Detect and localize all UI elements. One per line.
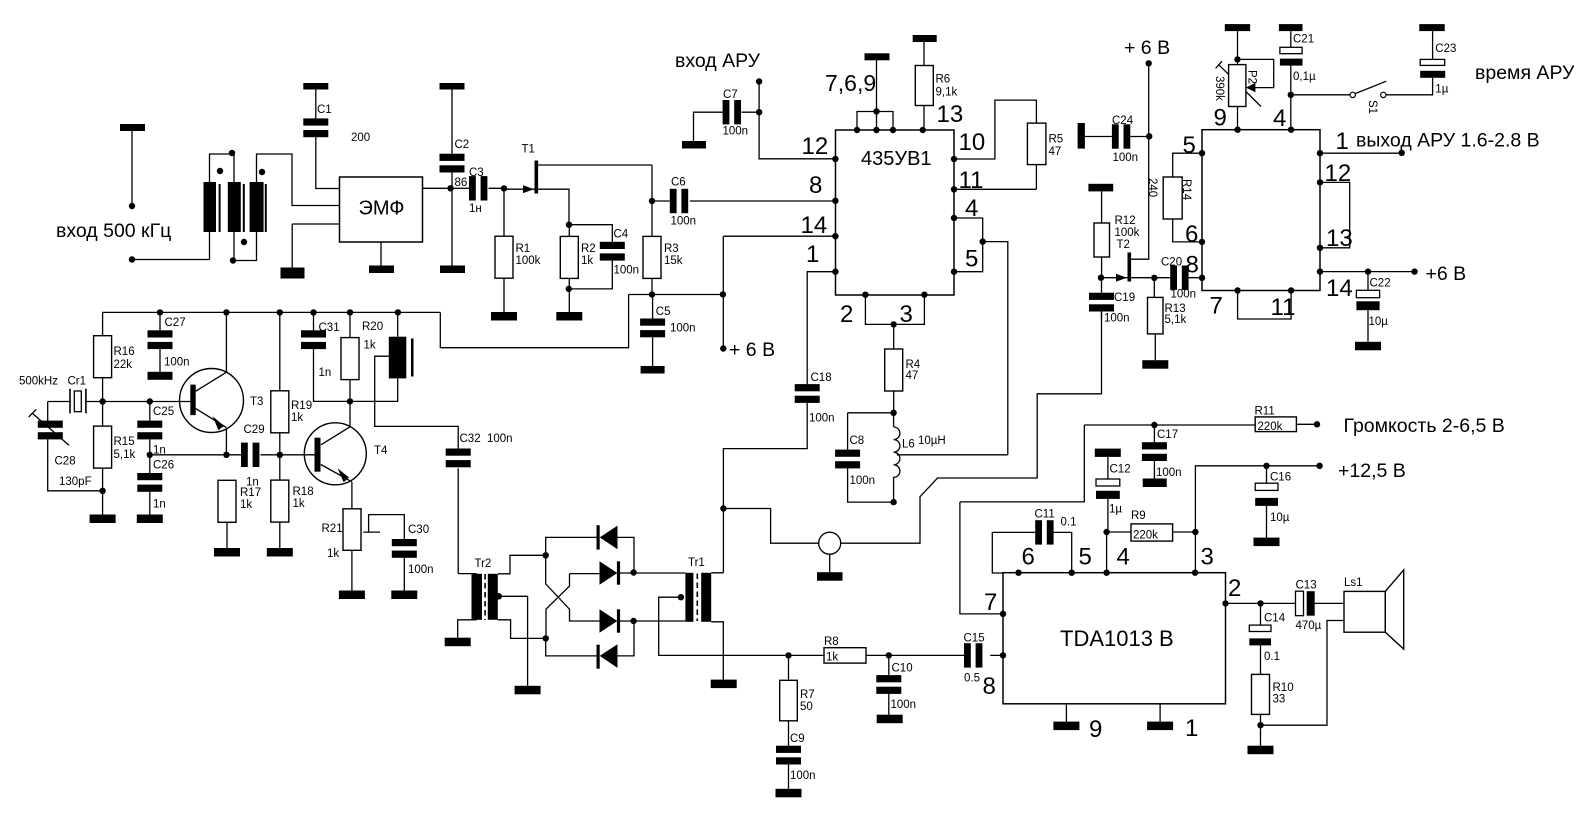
svg-text:R12: R12 <box>1115 215 1136 227</box>
svg-text:R8: R8 <box>824 636 839 648</box>
svg-text:3: 3 <box>900 301 913 328</box>
svg-text:130pF: 130pF <box>59 476 92 488</box>
svg-text:435УВ1: 435УВ1 <box>861 148 932 170</box>
svg-text:вход АРУ: вход АРУ <box>675 50 761 72</box>
svg-text:6: 6 <box>1185 221 1198 248</box>
svg-text:7,6,9: 7,6,9 <box>825 70 876 96</box>
svg-text:1k: 1k <box>293 498 305 510</box>
svg-text:C21: C21 <box>1293 34 1314 46</box>
svg-text:+ 6 В: + 6 В <box>1124 37 1170 59</box>
svg-text:C32: C32 <box>460 433 481 445</box>
svg-text:15k: 15k <box>664 255 683 267</box>
svg-text:47: 47 <box>906 370 919 382</box>
svg-text:0.1: 0.1 <box>1061 517 1077 529</box>
svg-text:10µH: 10µH <box>918 435 946 447</box>
svg-text:100n: 100n <box>1156 467 1182 479</box>
svg-text:200: 200 <box>351 132 370 144</box>
svg-text:+ 6 В: + 6 В <box>729 339 775 361</box>
svg-text:Tr1: Tr1 <box>688 557 705 569</box>
svg-text:C30: C30 <box>408 524 429 536</box>
svg-text:5: 5 <box>1183 132 1196 159</box>
svg-text:1н: 1н <box>469 203 482 215</box>
svg-text:C20: C20 <box>1161 257 1182 269</box>
svg-text:C2: C2 <box>455 139 470 151</box>
svg-text:P2: P2 <box>1246 70 1258 84</box>
svg-text:T2: T2 <box>1117 239 1130 251</box>
svg-text:240: 240 <box>1146 178 1158 197</box>
svg-text:1k: 1k <box>364 340 376 352</box>
svg-text:3: 3 <box>1201 544 1214 571</box>
svg-text:вход 500 кГц: вход 500 кГц <box>56 220 171 242</box>
svg-text:1n: 1n <box>153 445 166 457</box>
svg-text:100n: 100n <box>1171 289 1197 301</box>
svg-text:C10: C10 <box>892 663 913 675</box>
svg-text:1k: 1k <box>240 499 252 511</box>
svg-text:12: 12 <box>802 133 829 160</box>
svg-text:C19: C19 <box>1114 292 1135 304</box>
svg-text:11: 11 <box>1271 294 1296 321</box>
svg-text:9,1k: 9,1k <box>936 87 958 99</box>
svg-text:8: 8 <box>1186 252 1199 279</box>
svg-text:R20: R20 <box>362 321 383 333</box>
svg-text:5: 5 <box>1079 544 1092 571</box>
svg-text:50: 50 <box>800 701 813 713</box>
svg-text:500kHz: 500kHz <box>19 376 58 388</box>
svg-text:R21: R21 <box>322 523 343 535</box>
svg-text:R16: R16 <box>114 346 135 358</box>
svg-text:R18: R18 <box>293 486 314 498</box>
svg-text:10µ: 10µ <box>1270 512 1290 524</box>
svg-text:100n: 100n <box>891 699 917 711</box>
svg-text:14: 14 <box>1326 275 1353 302</box>
svg-text:C24: C24 <box>1112 115 1134 127</box>
svg-text:C14: C14 <box>1264 613 1286 625</box>
svg-text:1: 1 <box>1336 128 1349 155</box>
svg-text:C22: C22 <box>1370 278 1391 290</box>
svg-text:100n: 100n <box>790 770 816 782</box>
svg-text:C25: C25 <box>153 406 174 418</box>
svg-text:1k: 1k <box>327 548 339 560</box>
svg-text:2: 2 <box>1228 575 1241 602</box>
svg-text:C9: C9 <box>790 733 805 745</box>
svg-text:R9: R9 <box>1131 510 1146 522</box>
svg-text:C12: C12 <box>1110 464 1131 476</box>
svg-text:4: 4 <box>965 195 978 222</box>
svg-text:C6: C6 <box>671 177 686 189</box>
svg-text:0,1µ: 0,1µ <box>1293 71 1316 83</box>
svg-text:100n: 100n <box>671 216 697 228</box>
svg-text:C16: C16 <box>1270 472 1291 484</box>
svg-text:220k: 220k <box>1258 421 1283 433</box>
svg-text:R3: R3 <box>664 243 679 255</box>
svg-text:13: 13 <box>1326 225 1353 252</box>
svg-text:4: 4 <box>1117 544 1130 571</box>
svg-text:100n: 100n <box>1113 152 1139 164</box>
svg-text:C4: C4 <box>614 229 629 241</box>
svg-text:1n: 1n <box>319 367 332 379</box>
svg-text:33: 33 <box>1273 694 1286 706</box>
svg-text:C29: C29 <box>244 424 265 436</box>
svg-text:220k: 220k <box>1133 530 1158 542</box>
svg-text:C27: C27 <box>165 317 186 329</box>
svg-text:12: 12 <box>1325 160 1352 187</box>
svg-text:100n: 100n <box>164 357 190 369</box>
svg-text:22k: 22k <box>114 359 133 371</box>
svg-text:1µ: 1µ <box>1435 84 1448 96</box>
svg-text:+12,5 В: +12,5 В <box>1338 460 1406 482</box>
svg-text:1k: 1k <box>581 255 593 267</box>
svg-text:время АРУ: время АРУ <box>1475 62 1575 84</box>
svg-text:1: 1 <box>806 241 819 268</box>
svg-text:5,1k: 5,1k <box>114 449 136 461</box>
svg-text:T3: T3 <box>250 396 263 408</box>
svg-text:R6: R6 <box>936 74 951 86</box>
svg-text:1k: 1k <box>826 652 838 664</box>
svg-text:C17: C17 <box>1157 429 1178 441</box>
svg-text:ЭМФ: ЭМФ <box>359 198 405 220</box>
svg-text:выход АРУ 1.6-2.8 В: выход АРУ 1.6-2.8 В <box>1356 130 1540 152</box>
svg-text:Ls1: Ls1 <box>1344 577 1363 589</box>
svg-text:100n: 100n <box>614 265 640 277</box>
svg-text:100n: 100n <box>487 433 513 445</box>
svg-text:L6: L6 <box>902 439 915 451</box>
svg-text:8: 8 <box>809 172 822 199</box>
svg-text:100n: 100n <box>850 475 876 487</box>
svg-text:R11: R11 <box>1255 406 1275 418</box>
svg-text:C23: C23 <box>1435 43 1456 55</box>
svg-text:S1: S1 <box>1366 100 1378 114</box>
svg-text:R14: R14 <box>1180 179 1192 201</box>
svg-text:C1: C1 <box>317 104 332 116</box>
svg-text:Громкость 2-6,5 В: Громкость 2-6,5 В <box>1344 415 1505 437</box>
svg-text:C13: C13 <box>1296 580 1317 592</box>
svg-text:C3: C3 <box>469 167 484 179</box>
svg-text:11: 11 <box>959 167 984 194</box>
svg-text:R19: R19 <box>291 400 312 412</box>
svg-text:6: 6 <box>1022 544 1035 571</box>
svg-text:C11: C11 <box>1035 509 1055 521</box>
svg-text:4: 4 <box>1273 105 1286 132</box>
svg-text:C31: C31 <box>319 322 340 334</box>
svg-text:100k: 100k <box>516 255 541 267</box>
svg-text:1n: 1n <box>153 499 166 511</box>
svg-text:100n: 100n <box>809 413 835 425</box>
svg-text:1n: 1n <box>246 477 259 489</box>
svg-text:R10: R10 <box>1273 682 1294 694</box>
svg-text:Tr2: Tr2 <box>475 558 492 570</box>
svg-text:9: 9 <box>1089 716 1102 743</box>
svg-text:0.1: 0.1 <box>1264 651 1280 663</box>
svg-text:7: 7 <box>1210 293 1223 320</box>
svg-text:9: 9 <box>1214 105 1227 132</box>
svg-text:R17: R17 <box>240 487 261 499</box>
svg-text:Cr1: Cr1 <box>68 376 87 388</box>
svg-text:100n: 100n <box>1104 313 1130 325</box>
svg-text:10µ: 10µ <box>1369 316 1389 328</box>
svg-text:86: 86 <box>455 177 468 189</box>
svg-text:TDA1013 B: TDA1013 B <box>1060 626 1174 651</box>
svg-text:C18: C18 <box>811 372 832 384</box>
svg-text:T1: T1 <box>522 144 535 156</box>
svg-text:100k: 100k <box>1115 227 1140 239</box>
svg-text:8: 8 <box>983 673 996 700</box>
svg-text:C15: C15 <box>964 633 985 645</box>
svg-text:10: 10 <box>959 129 986 156</box>
svg-text:100n: 100n <box>670 323 696 335</box>
svg-text:0.5: 0.5 <box>964 673 980 685</box>
svg-text:7: 7 <box>984 589 997 616</box>
svg-text:14: 14 <box>801 212 828 239</box>
svg-text:390k: 390k <box>1213 76 1225 101</box>
svg-text:C7: C7 <box>723 89 738 101</box>
svg-text:5,1k: 5,1k <box>1165 314 1187 326</box>
svg-text:13: 13 <box>937 101 964 128</box>
svg-text:C5: C5 <box>656 306 671 318</box>
svg-text:100n: 100n <box>723 126 749 138</box>
svg-text:5: 5 <box>965 246 978 273</box>
svg-text:R1: R1 <box>516 243 531 255</box>
svg-text:100n: 100n <box>408 564 434 576</box>
svg-text:2: 2 <box>840 301 853 328</box>
svg-text:T4: T4 <box>374 445 388 457</box>
svg-text:R15: R15 <box>114 436 135 448</box>
svg-text:1µ: 1µ <box>1109 504 1122 516</box>
svg-text:47: 47 <box>1049 146 1062 158</box>
svg-text:C8: C8 <box>850 435 865 447</box>
svg-text:C28: C28 <box>55 456 76 468</box>
svg-text:1: 1 <box>1185 715 1198 742</box>
svg-text:R2: R2 <box>581 243 596 255</box>
svg-text:C26: C26 <box>153 460 174 472</box>
svg-text:1k: 1k <box>291 412 303 424</box>
svg-text:R5: R5 <box>1049 134 1064 146</box>
svg-text:+6 В: +6 В <box>1426 263 1467 285</box>
svg-text:470µ: 470µ <box>1296 620 1322 632</box>
svg-text:R7: R7 <box>800 689 815 701</box>
